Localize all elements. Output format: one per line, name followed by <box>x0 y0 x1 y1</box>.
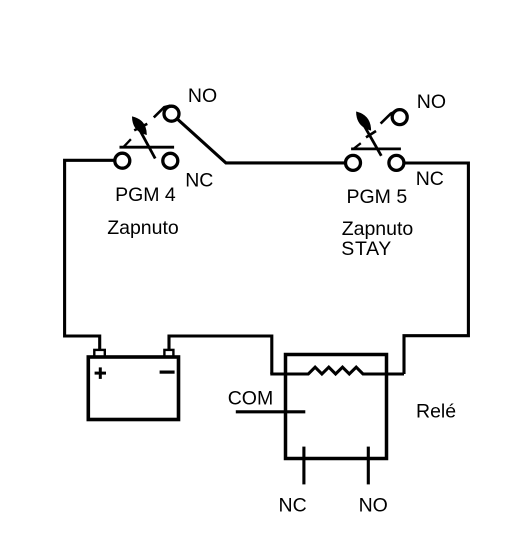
relay K1 body <box>286 355 387 459</box>
switch PGM4 NO hook <box>154 106 171 118</box>
wire battery-plus to PGM4 common <box>65 160 114 350</box>
svg-text:NC: NC <box>279 495 307 517</box>
switch PGM5 bar <box>351 147 401 150</box>
switch PGM4 bar arrow tick <box>124 139 131 146</box>
battery B1 negative post <box>164 350 173 357</box>
switch PGM5 NO hook <box>381 111 397 124</box>
svg-text:PGM 5: PGM 5 <box>347 186 408 208</box>
svg-text:Relé: Relé <box>416 400 456 422</box>
switch PGM4 bar <box>120 146 175 149</box>
wire PGM5 NC to relay coil right <box>404 163 468 374</box>
svg-text:PGM 4: PGM 4 <box>115 184 176 206</box>
battery B1 positive post <box>94 350 105 357</box>
wire battery-minus to relay coil left <box>169 336 272 374</box>
switch PGM5 star cross <box>366 131 376 137</box>
svg-text:STAY: STAY <box>341 238 391 260</box>
svg-text:COM: COM <box>228 388 274 410</box>
switch PGM4 NC contact circle <box>163 153 178 168</box>
battery minus sign <box>160 371 175 374</box>
wire NC terminal of relay <box>302 447 305 485</box>
switch PGM5 actuator dart <box>357 113 370 130</box>
switch PGM4 actuator dart <box>133 117 146 134</box>
svg-text:NC: NC <box>416 168 444 190</box>
battery B1 body <box>88 357 178 420</box>
svg-text:NO: NO <box>417 91 446 113</box>
switch PGM4 blade <box>133 118 155 158</box>
svg-text:Zapnuto: Zapnuto <box>107 217 179 239</box>
wire NO terminal of relay <box>367 447 370 485</box>
svg-text:NO: NO <box>359 495 388 517</box>
wire COM stub <box>236 410 305 413</box>
svg-text:NC: NC <box>185 170 213 192</box>
switch PGM5 blade <box>358 114 382 156</box>
switch PGM5 bar arrow tick <box>354 143 361 148</box>
switch PGM4 star cross <box>134 124 147 131</box>
svg-text:Zapnuto: Zapnuto <box>342 218 414 240</box>
relay coil wire with winding zigzag <box>270 367 404 374</box>
switch PGM5 NC contact circle <box>389 155 404 170</box>
switch PGM5 common contact circle <box>346 155 361 170</box>
switch PGM4 common contact circle <box>115 153 130 168</box>
switch PGM5 NO contact circle <box>392 110 407 125</box>
wire PGM4 NO to PGM5 common <box>178 120 345 163</box>
battery plus sign <box>95 367 106 379</box>
svg-text:NO: NO <box>188 85 217 107</box>
switch PGM4 NO contact circle <box>164 106 179 121</box>
